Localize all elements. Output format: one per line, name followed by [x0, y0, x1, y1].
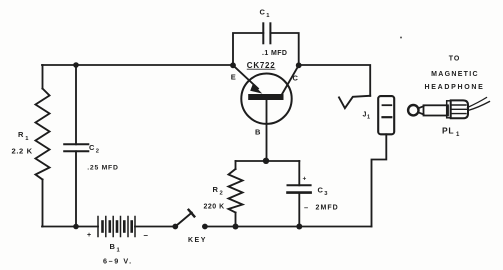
svg-text:C: C [293, 74, 299, 83]
node junction of C2 top on rail [73, 62, 79, 68]
svg-text:2.2 K: 2.2 K [12, 147, 33, 156]
wire R2 lower lead [235, 213, 237, 227]
wire base lead [266, 100, 268, 161]
svg-text:1: 1 [367, 115, 370, 121]
svg-text:B: B [110, 242, 116, 251]
label J1 [363, 112, 371, 121]
resistor R2 [229, 169, 243, 213]
wire top rail left (B+ rail to emitter node) [42, 64, 233, 66]
svg-text:+: + [87, 232, 91, 239]
svg-text:–: – [304, 203, 308, 212]
phone plug PL1 ball tip [408, 105, 418, 115]
label C1 [260, 8, 271, 19]
svg-text:6–9 V.: 6–9 V. [103, 256, 133, 265]
node C3 bottom junction [296, 224, 302, 230]
transistor base bar [248, 94, 283, 100]
svg-text:2MFD: 2MFD [316, 204, 339, 211]
label B1 [110, 242, 121, 254]
wire C1 loop right leg [270, 33, 298, 65]
label R2 [213, 185, 223, 197]
phone plug PL1 collar [447, 101, 451, 118]
transistor collector lead [282, 65, 299, 94]
svg-text:1: 1 [266, 13, 270, 19]
svg-text:R: R [18, 130, 24, 139]
wire bottom rail left segment [42, 226, 98, 228]
svg-text:E: E [231, 72, 236, 81]
wire C3 lower lead [298, 193, 300, 227]
svg-text:–: – [144, 231, 149, 240]
label C3 [318, 186, 329, 198]
svg-text:PL: PL [442, 125, 454, 135]
wire C2 lower lead [75, 151, 77, 226]
node collector junction C [296, 62, 302, 68]
transistor Q1 CK722 circle [241, 74, 291, 124]
svg-text:B: B [255, 128, 261, 137]
phone plug PL1 cord wires [468, 98, 487, 108]
wire jack sleeve to bottom rail [372, 134, 387, 226]
svg-text:TO: TO [449, 56, 461, 63]
svg-text:C: C [260, 8, 266, 17]
svg-text:HEADPHONE: HEADPHONE [424, 84, 484, 91]
jack J1 spring contact hook [339, 96, 370, 108]
wire left vertical upper lead of R1 [42, 65, 44, 89]
svg-text:C: C [318, 186, 324, 195]
resistor R1 [36, 89, 50, 180]
jack J1 body [378, 96, 394, 134]
node junction of C2 bottom on rail [73, 224, 79, 230]
wire C3 upper lead [298, 161, 300, 185]
phone plug PL1 neck [419, 106, 424, 114]
svg-text:2: 2 [220, 191, 223, 197]
svg-text:.1 MFD: .1 MFD [262, 50, 287, 57]
svg-text:.25 MFD: .25 MFD [87, 164, 118, 171]
label C2 [89, 143, 99, 155]
svg-text:J: J [363, 112, 367, 119]
label R1 [18, 130, 29, 142]
svg-text:1: 1 [456, 132, 460, 138]
phone plug PL1 shaft [424, 105, 449, 115]
label TO MAGNETIC HEADPHONE [424, 56, 484, 92]
svg-text:220 K: 220 K [204, 204, 225, 211]
battery B1 [98, 217, 135, 237]
switch KEY [172, 210, 207, 230]
wire collector to jack [299, 65, 371, 96]
node emitter junction E [230, 62, 236, 68]
transistor emitter lead with arrow [233, 65, 258, 88]
wire base node horizontal [236, 160, 300, 162]
wire R2 upper lead [235, 161, 237, 169]
capacitor C3 [288, 185, 311, 192]
capacitor C1 [263, 23, 270, 43]
phone plug PL1 body [451, 100, 468, 118]
svg-text:R: R [213, 185, 219, 194]
capacitor C2 [64, 144, 88, 151]
svg-text:+: + [303, 176, 307, 183]
wire bottom rail right segment [205, 226, 372, 228]
svg-text:KEY: KEY [188, 237, 207, 244]
wire C2 upper lead [75, 65, 77, 144]
node B junction [263, 158, 269, 164]
jack J1 tick marks [383, 104, 392, 106]
label PL1 [442, 125, 460, 138]
wire left vertical lower lead of R1 to bottom rail [42, 180, 44, 227]
wire battery to key [135, 226, 175, 228]
speck artifact [400, 37, 402, 39]
svg-text:MAGNETIC: MAGNETIC [431, 71, 479, 78]
node R2 bottom junction [233, 224, 239, 230]
wire C1 loop left leg [233, 33, 263, 65]
svg-text:C: C [89, 143, 95, 152]
svg-text:CK722: CK722 [247, 61, 276, 70]
svg-text:2: 2 [96, 149, 99, 155]
